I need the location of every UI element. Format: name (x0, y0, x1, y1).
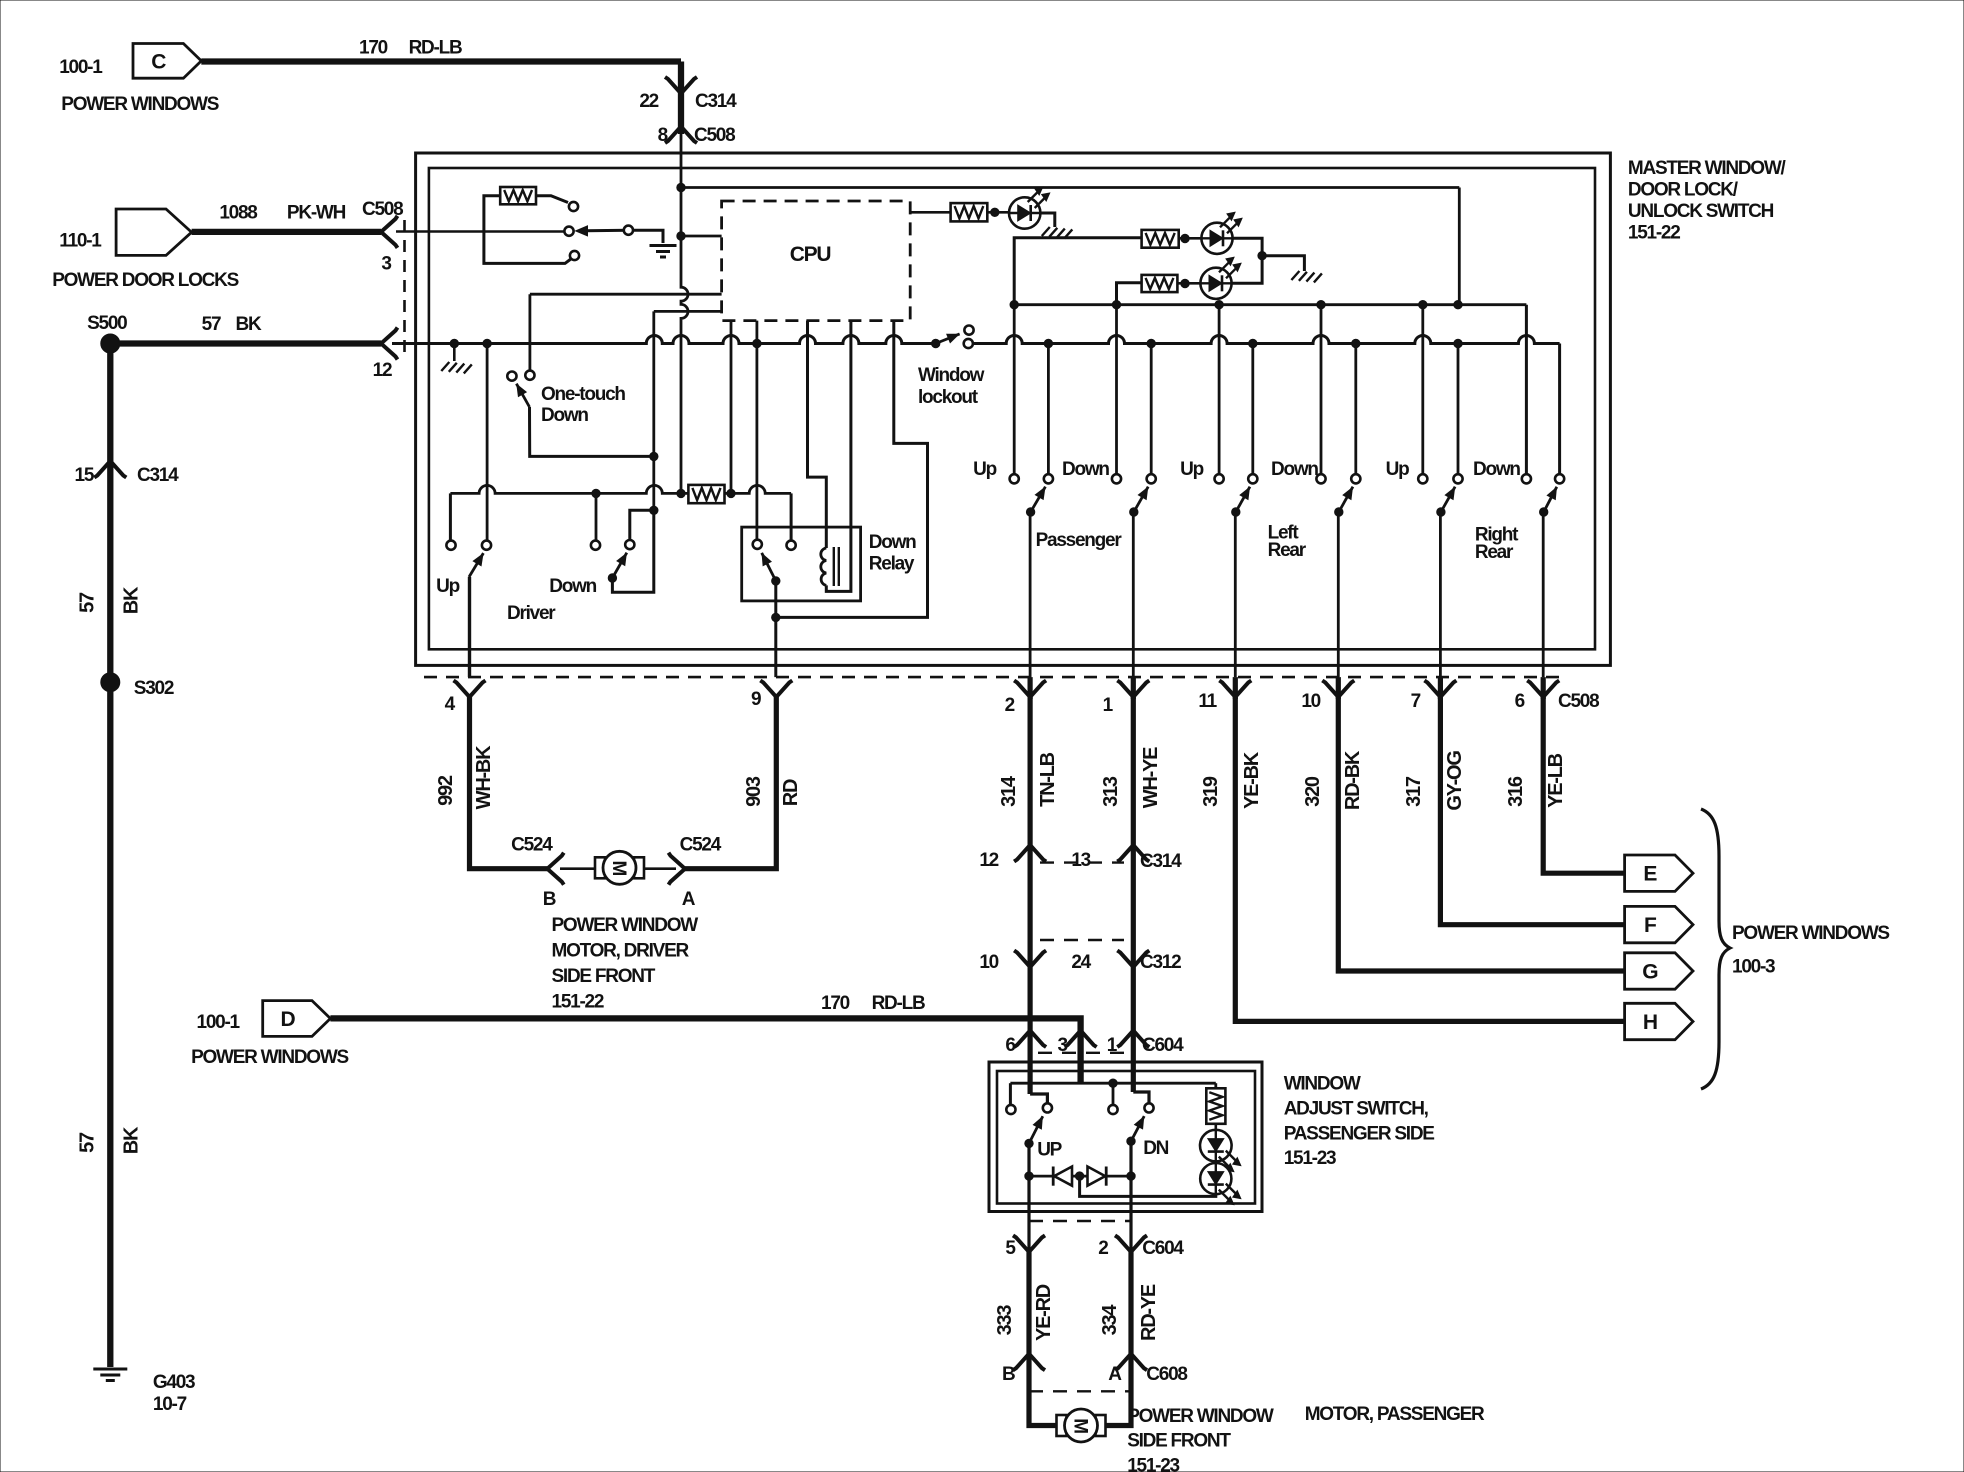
wire pin1 into box (1131, 1031, 1136, 1093)
svg-text:151-23: 151-23 (1284, 1148, 1336, 1169)
svg-text:151-22: 151-22 (552, 992, 604, 1013)
wire pin2 out of box (1129, 1212, 1132, 1252)
svg-text:15: 15 (75, 465, 95, 486)
lever switch left rear Down (1339, 487, 1353, 512)
svg-text:Down: Down (541, 405, 588, 426)
wire 317 GY-OG to F (1440, 697, 1624, 925)
wire adjust feed rail (1010, 1082, 1215, 1085)
contact window lockout fixed (964, 339, 973, 348)
svg-text:57: 57 (77, 592, 99, 613)
svg-text:6: 6 (1005, 1035, 1015, 1056)
svg-text:PASSENGER SIDE: PASSENGER SIDE (1284, 1123, 1435, 1144)
contact right rear Up lever pivot (1453, 474, 1462, 483)
node one-touch output (650, 452, 658, 460)
wire driver up output (in box) (468, 577, 471, 677)
contact right rear Down fixed (1522, 474, 1531, 483)
LED5 adjust lower (1200, 1163, 1231, 1194)
wire one-touch output (530, 407, 654, 456)
wire 319 YE-BK to H (1235, 697, 1624, 1021)
lever switch left rear Up (1236, 487, 1250, 512)
wire bus corner rightrear-down lever (1558, 344, 1561, 475)
connector D flag (263, 1001, 331, 1037)
connector arrow C524 A (669, 853, 686, 885)
node feed passenger-down (1112, 301, 1120, 309)
node passenger Down lever tip (1130, 508, 1138, 516)
svg-text:PK-WH: PK-WH (287, 203, 346, 224)
wire passenger-down lever drop (1150, 344, 1153, 475)
contact driver up lever pivot (482, 541, 491, 550)
connector arrow pin 6 C508 (1527, 681, 1559, 698)
wire pin5 out of box (1027, 1212, 1030, 1252)
wire 992 WH-BK (470, 697, 548, 869)
master switch outer box (416, 153, 1611, 665)
connector arrow B C608 (1013, 1354, 1045, 1371)
wire top feed line (681, 186, 1459, 189)
LED3 indicator (1200, 268, 1231, 299)
ground bus hatch (441, 362, 449, 371)
svg-text:12: 12 (979, 850, 998, 871)
wire left rear Down output (below box) (1336, 677, 1341, 699)
node driver down node (650, 506, 658, 514)
node adjust UP tip (1025, 1139, 1033, 1147)
wire pin1 jog to lever (1133, 1092, 1149, 1103)
svg-text:2: 2 (1098, 1238, 1108, 1259)
contact passenger Up lever pivot (1044, 474, 1053, 483)
wire left rear Down output (in box) (1337, 512, 1340, 677)
svg-text:13: 13 (1071, 850, 1090, 871)
svg-text:G: G (1642, 961, 1658, 984)
svg-text:1088: 1088 (219, 203, 257, 224)
dashed connector line C608 (1029, 1390, 1131, 1392)
svg-text:Down: Down (1271, 459, 1318, 480)
svg-text:Relay: Relay (869, 554, 915, 575)
connector arrow A C608 (1115, 1354, 1147, 1371)
resistor lock switch (500, 187, 536, 204)
diode D1 (left) (1054, 1167, 1072, 1186)
connector arrow 5 C604 (1013, 1235, 1045, 1252)
wire driver-up lever drop (486, 344, 489, 541)
node right rear Down lever tip (1540, 508, 1548, 516)
node feed leftrear-up (1215, 301, 1223, 309)
svg-text:BK: BK (236, 314, 262, 335)
lever driver down switch (612, 553, 626, 578)
ground LED2/3 hatch (1291, 271, 1299, 280)
wire cpu left feed (681, 235, 722, 238)
wire coil return to cpu p4 (826, 321, 851, 592)
wire one-touch upper line (530, 293, 722, 296)
svg-text:57: 57 (202, 314, 221, 335)
wire ground stub (453, 344, 456, 362)
wire leftrear-down fixed drop (1320, 309, 1323, 474)
connector E flag (1625, 855, 1693, 891)
svg-text:C312: C312 (1140, 952, 1181, 973)
connector C508 dashed edge (left) (403, 220, 406, 356)
svg-text:C604: C604 (1142, 1238, 1184, 1259)
node bus relay contact drop (753, 339, 761, 347)
svg-text:Up: Up (1386, 459, 1409, 480)
wire right feed drop (1458, 188, 1461, 305)
wire 57 BK upper (107, 344, 113, 683)
connector arrow C524 B (547, 853, 564, 885)
svg-text:170: 170 (359, 38, 388, 59)
wire LED3 cathode (1232, 256, 1263, 284)
lever one-touch (516, 384, 529, 407)
node diode line left (1025, 1172, 1033, 1180)
node feed leftrear-down (1317, 301, 1325, 309)
wire right rear Up output (below box) (1438, 677, 1443, 699)
wire adjust DN output (1129, 1141, 1132, 1211)
svg-text:3: 3 (381, 254, 391, 275)
wire DN fixed stub (1112, 1083, 1115, 1105)
svg-text:992: 992 (435, 775, 457, 806)
svg-text:YE-RD: YE-RD (1033, 1284, 1055, 1341)
wire 314 TN-LB upper (1027, 697, 1032, 845)
wire adjust LED resistor stub (1214, 1083, 1217, 1088)
wire cpu to resistor (910, 211, 950, 214)
svg-text:C314: C314 (1140, 851, 1182, 872)
wire left rear Up output (in box) (1234, 512, 1237, 677)
ground lock switch (650, 244, 677, 247)
svg-text:BK: BK (120, 1126, 142, 1154)
svg-text:A: A (682, 889, 696, 910)
wire 170 RD-LB (D) (330, 1018, 1080, 1030)
svg-text:151-22: 151-22 (1628, 223, 1680, 244)
LED2 indicator (1201, 223, 1232, 254)
wire motor A lead (645, 867, 676, 870)
wire diode mid to LEDs (1080, 1176, 1216, 1196)
svg-text:Down: Down (549, 576, 596, 597)
wire 316 YE-LB to E (1543, 697, 1624, 873)
svg-text:Up: Up (436, 576, 459, 597)
contact passenger Up fixed (1010, 474, 1019, 483)
node LED2 anode (1181, 234, 1189, 242)
connector arrow 1 C604 (1117, 1031, 1149, 1048)
wire 170 RD-LB vertical drop (678, 62, 684, 135)
svg-text:POWER WINDOWS: POWER WINDOWS (61, 94, 218, 115)
connector arrow 3 C508 (381, 216, 398, 248)
dashed connector line C314 (1040, 861, 1124, 863)
wire passenger Down output (in box) (1132, 512, 1135, 677)
connector arrow 15 C314 (94, 461, 126, 478)
wire rightrear-up lever drop (1457, 344, 1460, 475)
diode D2 (right) (1088, 1167, 1106, 1186)
wire adjust UP output (1027, 1143, 1030, 1211)
node relay output / cpu p5 (772, 613, 780, 621)
wire left rear Up output (below box) (1233, 677, 1238, 699)
connector arrow 24 C312 (1117, 951, 1149, 968)
svg-text:YE-LB: YE-LB (1545, 753, 1567, 808)
svg-text:POWER WINDOW: POWER WINDOW (1127, 1406, 1274, 1427)
wire down node vertical (652, 311, 655, 510)
svg-text:E: E (1643, 863, 1657, 886)
wire one-touch drop (529, 294, 532, 371)
svg-text:B: B (1002, 1364, 1015, 1385)
connector F flag (1625, 906, 1693, 942)
adjust switch inner box (997, 1071, 1255, 1204)
svg-text:RD-YE: RD-YE (1138, 1284, 1160, 1341)
lever switch passenger Down (1134, 487, 1148, 512)
contact adjust UP lever pivot (1043, 1103, 1052, 1112)
contact adjust DN lever pivot (1144, 1103, 1153, 1112)
wire LED3 feed (1117, 283, 1142, 305)
svg-text:M: M (1070, 1418, 1091, 1433)
master switch inner box (429, 168, 1595, 649)
svg-text:MASTER WINDOW/: MASTER WINDOW/ (1628, 158, 1787, 179)
contact passenger Down lever pivot (1147, 474, 1156, 483)
svg-text:151-23: 151-23 (1127, 1455, 1179, 1472)
node LED2/3 cathode (1258, 252, 1266, 260)
svg-text:22: 22 (639, 91, 658, 112)
svg-text:100-1: 100-1 (197, 1012, 241, 1033)
S302 splice (101, 673, 120, 692)
wire LED cathodes to ground (1262, 256, 1304, 271)
connector arrow 12 C314 (1014, 845, 1046, 862)
resistor LED2 (1142, 230, 1179, 248)
relay coil (821, 548, 827, 585)
node diode midpoint (1075, 1172, 1083, 1180)
lever relay switch (762, 553, 776, 581)
svg-text:Window: Window (918, 365, 985, 386)
wire passenger-up lever drop (1047, 344, 1050, 475)
connector C508 dashed edge (bottom) (424, 676, 1562, 679)
wire right rear Up output (in box) (1439, 512, 1442, 677)
node feed right drop (1454, 301, 1462, 309)
wire LED1 to ground (1040, 213, 1054, 227)
wire resistor1-LED1 (987, 211, 1009, 214)
lever driver up switch (469, 553, 483, 577)
svg-text:RD-BK: RD-BK (1342, 750, 1364, 810)
lever adjust DN switch (1131, 1116, 1144, 1141)
wire relay output (in box) (774, 581, 777, 677)
svg-text:POWER WINDOWS: POWER WINDOWS (1732, 923, 1889, 944)
wire 333 YE-RD (1026, 1252, 1031, 1354)
svg-text:B: B (543, 889, 556, 910)
wire 313 WH-YE upper (1131, 697, 1136, 845)
ground LED1 hatch (1042, 227, 1050, 236)
node bus passenger-down lever (1147, 339, 1155, 347)
node main vertical / top feed (677, 183, 685, 191)
svg-text:S302: S302 (134, 678, 174, 699)
wire rightrear-down fixed drop (1525, 305, 1528, 474)
dashed connector line C312 (1040, 939, 1124, 941)
svg-text:ADJUST SWITCH,: ADJUST SWITCH, (1284, 1099, 1429, 1120)
lever switch right rear Down (1544, 487, 1557, 512)
wire motor passenger A (1104, 1354, 1131, 1426)
svg-text:Rear: Rear (1475, 542, 1514, 563)
wire lock switch to ground (633, 230, 663, 243)
wire passenger Up output (in box) (1029, 512, 1032, 677)
svg-text:C524: C524 (511, 835, 553, 856)
svg-text:WH-BK: WH-BK (473, 745, 495, 809)
wire res to LED4 (1215, 1124, 1218, 1130)
svg-text:MOTOR, DRIVER: MOTOR, DRIVER (552, 941, 690, 962)
node LED3 anode (1181, 279, 1189, 287)
svg-text:C508: C508 (694, 125, 735, 146)
wire cpu p3 to coil (808, 321, 827, 548)
wire cpu p5 jog (776, 321, 928, 618)
S500 splice (101, 334, 120, 353)
contact passenger Down fixed (1112, 474, 1121, 483)
node bus leftrear-down lever (1352, 339, 1360, 347)
svg-text:RD-LB: RD-LB (409, 38, 462, 59)
node feed passenger-up (1010, 301, 1018, 309)
wire lock resistor right lead (536, 196, 568, 203)
node bus driver-up drop (483, 339, 491, 347)
lever window lockout (932, 339, 940, 347)
svg-text:UNLOCK SWITCH: UNLOCK SWITCH (1628, 201, 1774, 222)
wire leftrear-down lever drop (1354, 344, 1357, 475)
svg-text:A: A (1108, 1364, 1122, 1385)
svg-text:S500: S500 (87, 313, 127, 334)
connector arrow pin 1 C508 (1117, 681, 1149, 698)
wire 170 RD-LB horizontal (201, 58, 681, 64)
svg-text:8: 8 (658, 125, 668, 146)
connector arrow pin 4 C508 (454, 681, 486, 698)
wire cpu p1 drop (730, 321, 733, 494)
svg-text:Down: Down (1062, 459, 1109, 480)
wire diode line (1029, 1175, 1131, 1178)
node relay lever tip (772, 577, 780, 585)
adjust switch outer box (989, 1062, 1262, 1212)
svg-text:D: D (280, 1008, 295, 1031)
svg-text:YE-BK: YE-BK (1241, 751, 1263, 809)
contact right rear Down lever pivot (1555, 474, 1564, 483)
svg-text:G403: G403 (153, 1372, 195, 1393)
node bus ground stub (450, 339, 458, 347)
contact window lockout open (964, 326, 973, 335)
node diode line right (1127, 1172, 1135, 1180)
wire 57 BK to box (110, 340, 381, 346)
node passenger Up lever tip (1026, 508, 1034, 516)
svg-text:10: 10 (1301, 691, 1320, 712)
svg-text:RD-LB: RD-LB (872, 993, 925, 1014)
connector arrow 6 C604 (1014, 1031, 1046, 1048)
contact lock switch lower (570, 251, 579, 260)
connector arrow 3 C604 (1065, 1031, 1097, 1048)
svg-text:C508: C508 (1558, 691, 1599, 712)
svg-text:Passenger: Passenger (1036, 530, 1123, 551)
svg-text:6: 6 (1515, 691, 1525, 712)
connector arrow pin 2 C508 (1014, 681, 1046, 698)
wire 1088 PK-WH (192, 229, 381, 235)
node adjust DN fixed stub (1109, 1079, 1117, 1087)
node driver down lever tip (608, 574, 616, 582)
contact lock switch upper (569, 202, 578, 211)
svg-text:7: 7 (1411, 691, 1421, 712)
contact relay right (787, 541, 796, 550)
svg-text:POWER WINDOWS: POWER WINDOWS (191, 1047, 348, 1068)
connector G flag (1625, 953, 1693, 989)
svg-text:C508: C508 (362, 199, 403, 220)
resistor adjust LED (1206, 1088, 1225, 1124)
contact lock switch pivot (624, 226, 633, 235)
contact driver down fixed (591, 541, 600, 550)
contact left rear Down fixed (1316, 474, 1325, 483)
wire passenger-up fixed drop (1013, 309, 1016, 474)
brace power windows 100-3 (1701, 809, 1730, 1089)
svg-text:110-1: 110-1 (59, 231, 102, 252)
svg-text:lockout: lockout (918, 387, 979, 408)
svg-text:One-touch: One-touch (541, 384, 625, 405)
svg-text:WH-YE: WH-YE (1140, 747, 1162, 808)
node resistor right / cpu (727, 489, 735, 497)
svg-text:GY-OG: GY-OG (1444, 751, 1466, 811)
lever lock switch (586, 229, 628, 233)
svg-text:SIDE FRONT: SIDE FRONT (1127, 1431, 1231, 1452)
CPU box (722, 201, 911, 321)
wire 57 BK lower (107, 682, 113, 1367)
connector arrow 2 C604 (1115, 1235, 1147, 1252)
wire 313 mid (1131, 845, 1136, 967)
wire lock switch common (396, 230, 564, 233)
down relay box (742, 527, 861, 601)
contact left rear Up lever pivot (1248, 474, 1257, 483)
contact driver up fixed (446, 541, 455, 550)
wire 320 RD-BK to G (1338, 697, 1624, 971)
motor passenger side front (1057, 1415, 1067, 1436)
svg-text:313: 313 (1100, 776, 1122, 807)
wire driver feed rail (450, 485, 688, 493)
svg-text:24: 24 (1071, 952, 1091, 973)
wire switch feed rail (1014, 303, 1526, 306)
connector flag 110-1 POWER DOOR LOCKS (116, 209, 192, 255)
motor driver side front (595, 857, 605, 878)
contact left rear Up fixed (1215, 474, 1224, 483)
svg-text:316: 316 (1505, 776, 1527, 807)
svg-text:100-1: 100-1 (59, 57, 103, 78)
connector arrow pin 11 C508 (1219, 681, 1251, 698)
resistor LED3 (1142, 275, 1178, 292)
wire 334 RD-YE (1128, 1252, 1133, 1354)
contact one-touch open (507, 372, 516, 381)
wire leftrear-up lever drop (1251, 344, 1254, 475)
svg-text:Down: Down (869, 532, 916, 553)
wire pin8 feed vertical (681, 134, 688, 493)
contact adjust UP fixed (1006, 1105, 1015, 1114)
svg-text:WINDOW: WINDOW (1284, 1074, 1361, 1095)
resistor LED1 (951, 203, 988, 221)
connector arrow pin 10 C508 (1322, 681, 1354, 698)
svg-text:333: 333 (994, 1305, 1016, 1336)
svg-text:10-7: 10-7 (153, 1394, 187, 1415)
svg-text:CPU: CPU (790, 243, 831, 266)
wire 313 lower (1131, 967, 1136, 1031)
wire passenger Up output (below box) (1027, 677, 1032, 699)
node bus passenger-up lever (1044, 339, 1052, 347)
wire passenger-down fixed drop (1115, 309, 1118, 474)
contact right rear Up fixed (1418, 474, 1427, 483)
node main vertical / cpu feed (677, 232, 685, 240)
LED4 adjust upper (1200, 1130, 1232, 1162)
wire UP fixed drop (1009, 1083, 1012, 1105)
wire resistor3-LED3 (1177, 282, 1200, 285)
connector arrow 12 C508 (381, 328, 398, 360)
svg-text:UP: UP (1037, 1140, 1062, 1161)
svg-text:2: 2 (1005, 695, 1015, 716)
connector arrow pin 7 C508 (1424, 681, 1456, 698)
svg-text:H: H (1643, 1011, 1657, 1034)
wire pin6 jog to lever (1030, 1094, 1047, 1103)
svg-text:9: 9 (751, 689, 761, 710)
contact one-touch upper (525, 371, 534, 380)
node left rear Up lever tip (1232, 508, 1240, 516)
contact driver down lever pivot (625, 540, 634, 549)
svg-text:334: 334 (1099, 1304, 1121, 1336)
wire motor passenger B (1029, 1354, 1056, 1426)
svg-text:Driver: Driver (507, 603, 556, 624)
svg-text:11: 11 (1198, 691, 1217, 712)
lever adjust UP switch (1029, 1116, 1043, 1143)
